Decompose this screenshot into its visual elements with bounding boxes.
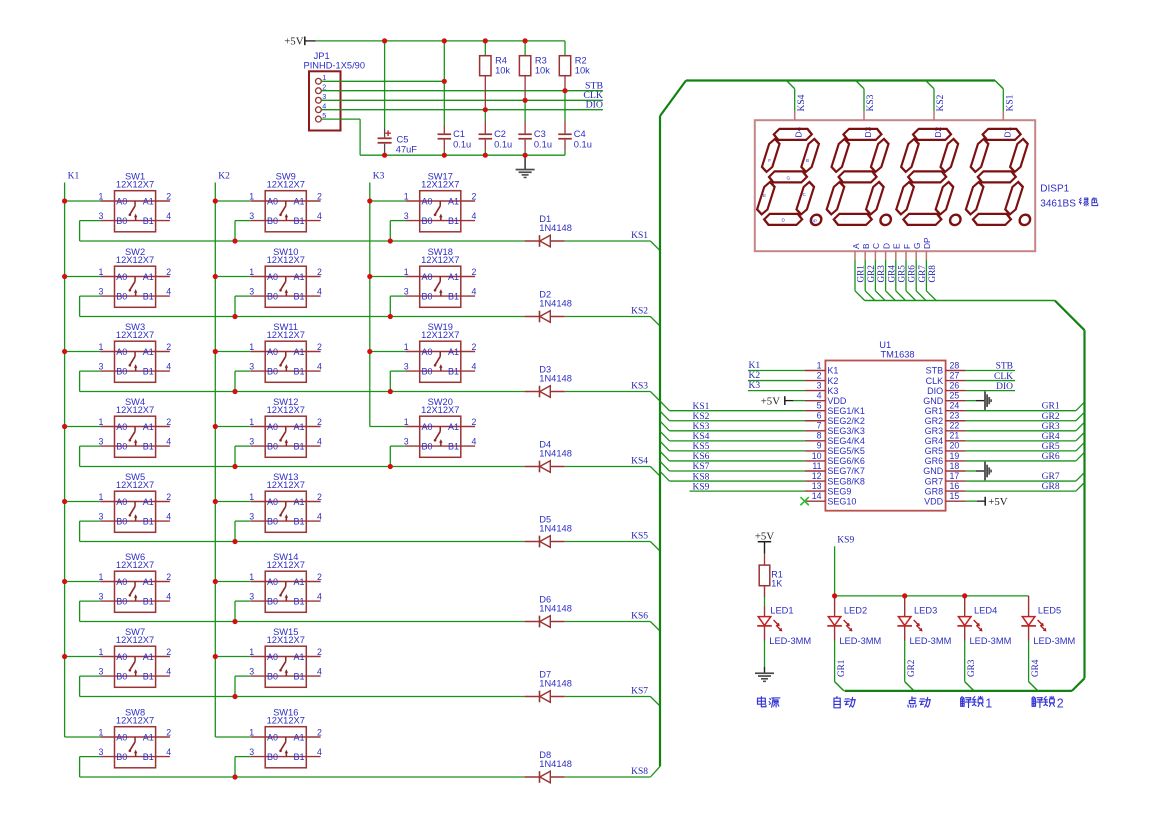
label unlock1 (Chinese) bbox=[960, 697, 971, 708]
wire SW3 pin3 to row line bbox=[80, 370, 101, 372]
switch SW9 12X12X7 bbox=[249, 172, 322, 232]
ground symbol at U1 pin 25 bbox=[966, 391, 992, 410]
svg-text:3: 3 bbox=[817, 380, 822, 390]
wire KS8 from bus to U1 pin12 bbox=[660, 471, 669, 481]
svg-text:1N4148: 1N4148 bbox=[539, 223, 572, 233]
svg-text:1N4148: 1N4148 bbox=[539, 759, 572, 769]
svg-text:3: 3 bbox=[98, 286, 103, 296]
svg-text:E: E bbox=[892, 243, 902, 249]
wire SW6 pin3 to row line bbox=[80, 600, 101, 602]
switch SW4 12X12X7 bbox=[98, 397, 171, 457]
wire net GR7 from U1 to right bus bbox=[966, 480, 1076, 482]
resistor R2 10k bbox=[559, 56, 590, 91]
svg-text:B0: B0 bbox=[116, 291, 127, 301]
svg-text:1N4148: 1N4148 bbox=[539, 373, 572, 383]
wire SW4 pin1 to column bbox=[65, 426, 101, 428]
svg-text:1N4148: 1N4148 bbox=[539, 603, 572, 613]
svg-text:A1: A1 bbox=[143, 577, 154, 587]
svg-text:A1: A1 bbox=[143, 732, 154, 742]
wire SW8 pin3 to row line bbox=[80, 756, 101, 758]
connector JP1 PINHD-1X5/90 bbox=[304, 51, 366, 131]
svg-text:12X12X7: 12X12X7 bbox=[421, 255, 459, 265]
wire JP1 pin1 to +5V net bbox=[321, 80, 444, 82]
svg-text:F: F bbox=[902, 244, 912, 249]
svg-text:CLK: CLK bbox=[926, 376, 944, 386]
svg-text:B0: B0 bbox=[267, 752, 278, 762]
wire SW7 pin1 to column bbox=[65, 656, 101, 658]
svg-text:LED4: LED4 bbox=[974, 606, 997, 616]
wire net CLK from JP1 pin3 bbox=[321, 99, 603, 101]
wire GR2 from LED3 to bottom bus bbox=[904, 641, 906, 682]
svg-text:KS4: KS4 bbox=[693, 432, 710, 442]
wire net K1 stub to U1 bbox=[748, 370, 805, 372]
junction dots K2 column bbox=[213, 198, 218, 659]
svg-text:3: 3 bbox=[249, 211, 254, 221]
wire C5 branch from rail bbox=[384, 41, 386, 129]
svg-text:A0: A0 bbox=[422, 422, 433, 432]
diode D3 1N4148 bbox=[525, 365, 572, 398]
wire LED1 cathode to ground bbox=[764, 641, 766, 667]
svg-text:2: 2 bbox=[317, 267, 322, 277]
svg-text:A1: A1 bbox=[293, 347, 304, 357]
pin lead digit D2 bbox=[933, 111, 935, 120]
capacitor C5 47uF bbox=[378, 129, 418, 156]
wire KS7 from diode to bus bbox=[565, 696, 651, 698]
svg-text:2: 2 bbox=[472, 192, 477, 202]
svg-text:A1: A1 bbox=[448, 272, 459, 282]
seven-segment digit D1 bbox=[964, 129, 1040, 225]
svg-text:4: 4 bbox=[317, 667, 322, 677]
svg-text:12X12X7: 12X12X7 bbox=[421, 180, 459, 190]
svg-text:+5V: +5V bbox=[988, 496, 1007, 508]
svg-text:2: 2 bbox=[166, 267, 171, 277]
svg-text:4: 4 bbox=[166, 287, 171, 297]
wire KS7 from bus to U1 pin11 bbox=[660, 461, 669, 471]
svg-text:GR8: GR8 bbox=[927, 265, 937, 283]
svg-text:B0: B0 bbox=[267, 441, 278, 451]
svg-text:B0: B0 bbox=[422, 366, 433, 376]
wire K1 column bbox=[64, 183, 66, 738]
pin 22 GR3 bbox=[925, 421, 966, 436]
svg-text:12: 12 bbox=[812, 471, 822, 481]
svg-text:2: 2 bbox=[166, 492, 171, 502]
svg-text:4: 4 bbox=[472, 362, 477, 372]
wire C3 pullup connection bbox=[524, 100, 526, 121]
junction dots row 2 bbox=[232, 314, 393, 319]
svg-text:GR3: GR3 bbox=[876, 265, 886, 283]
svg-text:U1: U1 bbox=[879, 340, 891, 350]
svg-text:4: 4 bbox=[472, 211, 477, 221]
label power (Chinese) bbox=[758, 697, 766, 707]
svg-text:B0: B0 bbox=[267, 596, 278, 606]
svg-text:3: 3 bbox=[249, 591, 254, 601]
svg-text:GR8: GR8 bbox=[925, 486, 944, 496]
svg-text:12X12X7: 12X12X7 bbox=[421, 405, 459, 415]
svg-text:3: 3 bbox=[249, 286, 254, 296]
svg-text:22: 22 bbox=[950, 421, 960, 431]
svg-text:15: 15 bbox=[950, 491, 960, 501]
pin 16 GR8 bbox=[925, 481, 966, 496]
wire net GR6 from U1 to right bus bbox=[966, 460, 1076, 462]
wire KS2 from diode to bus bbox=[565, 316, 651, 318]
switch SW11 12X12X7 bbox=[249, 322, 322, 382]
wire SW13 pin3 to row line bbox=[235, 520, 251, 522]
pin 28 STB bbox=[926, 360, 966, 375]
svg-text:12X12X7: 12X12X7 bbox=[116, 255, 154, 265]
svg-text:1: 1 bbox=[249, 417, 254, 427]
pin 20 GR5 bbox=[925, 441, 966, 456]
svg-text:4: 4 bbox=[317, 287, 322, 297]
svg-text:0.1u: 0.1u bbox=[534, 140, 552, 150]
wire KS4 from diode to bus bbox=[565, 466, 651, 468]
svg-text:12X12X7: 12X12X7 bbox=[421, 330, 459, 340]
svg-text:C1: C1 bbox=[453, 129, 465, 139]
svg-text:KS3: KS3 bbox=[866, 94, 876, 111]
svg-text:C5: C5 bbox=[397, 135, 409, 145]
wire SW18 pin3 to row line bbox=[390, 295, 405, 297]
svg-text:B1: B1 bbox=[143, 291, 154, 301]
pin lead segment D bbox=[885, 251, 887, 259]
pin 21 GR4 bbox=[925, 431, 966, 446]
svg-text:12X12X7: 12X12X7 bbox=[267, 480, 305, 490]
svg-text:LED-3MM: LED-3MM bbox=[839, 636, 881, 646]
junction dots row 7 bbox=[232, 694, 237, 699]
wire net GR5 from U1 to right bus bbox=[966, 450, 1076, 452]
wire SW16 pin1 to column bbox=[215, 736, 251, 738]
wire switch row 5 output line bbox=[80, 541, 525, 543]
svg-text:DIO: DIO bbox=[996, 382, 1013, 392]
wire net GR1 from U1 to right bus bbox=[966, 410, 1076, 412]
wire SW20 pin3 to row line bbox=[390, 445, 405, 447]
svg-text:B1: B1 bbox=[293, 366, 304, 376]
LED LED3 LED-3MM bbox=[897, 596, 951, 646]
svg-text:1: 1 bbox=[249, 342, 254, 352]
svg-text:B1: B1 bbox=[143, 216, 154, 226]
svg-text:1N4148: 1N4148 bbox=[539, 448, 572, 458]
svg-text:1: 1 bbox=[98, 572, 103, 582]
svg-text:A1: A1 bbox=[143, 272, 154, 282]
wire net CLK from U1 bbox=[966, 380, 1015, 382]
svg-text:GR4: GR4 bbox=[925, 436, 944, 446]
svg-text:2: 2 bbox=[472, 267, 477, 277]
svg-text:A1: A1 bbox=[293, 732, 304, 742]
svg-text:KS9: KS9 bbox=[693, 482, 710, 492]
wire bus to KS1 display lead bbox=[995, 81, 1003, 89]
pin 7 SEG3/K3 bbox=[805, 421, 865, 436]
wire GR5 from display bbox=[895, 260, 897, 291]
wire GR4 from display bbox=[885, 260, 887, 291]
svg-text:A1: A1 bbox=[143, 422, 154, 432]
wire KS collector bus vertical bbox=[659, 116, 661, 766]
wire GR staircase horizontal bbox=[865, 300, 1055, 302]
svg-text:+5V: +5V bbox=[761, 396, 780, 408]
svg-text:GR5: GR5 bbox=[1042, 442, 1060, 452]
power +5V at U1 pin15 VDD bbox=[966, 496, 1008, 508]
svg-text:A0: A0 bbox=[116, 577, 127, 587]
svg-text:A0: A0 bbox=[267, 497, 278, 507]
svg-text:GR1: GR1 bbox=[1042, 402, 1060, 412]
wire KS5 from bus to U1 pin9 bbox=[660, 441, 669, 451]
svg-text:B0: B0 bbox=[116, 216, 127, 226]
ground symbol below C3 bbox=[516, 155, 535, 178]
svg-text:SEG9: SEG9 bbox=[827, 486, 851, 496]
wire net K2 stub to U1 bbox=[748, 380, 805, 382]
svg-text:3: 3 bbox=[404, 361, 409, 371]
svg-text:27: 27 bbox=[950, 370, 960, 380]
junction dots LED anode rail bbox=[832, 593, 967, 598]
svg-text:B1: B1 bbox=[448, 366, 459, 376]
svg-text:3: 3 bbox=[98, 436, 103, 446]
resistor R1 1K bbox=[759, 554, 783, 589]
svg-text:B0: B0 bbox=[267, 216, 278, 226]
svg-text:A0: A0 bbox=[116, 272, 127, 282]
svg-text:GR6: GR6 bbox=[907, 265, 917, 283]
wire SW11 pin1 to column bbox=[215, 351, 251, 353]
svg-text:GR3: GR3 bbox=[925, 426, 944, 436]
svg-text:B1: B1 bbox=[293, 291, 304, 301]
svg-text:A1: A1 bbox=[293, 196, 304, 206]
svg-text:KS1: KS1 bbox=[1006, 94, 1016, 111]
svg-text:A0: A0 bbox=[267, 347, 278, 357]
wire bottom GR bus bbox=[845, 690, 1072, 692]
wire KS6 from diode to bus bbox=[565, 621, 651, 623]
svg-text:2: 2 bbox=[166, 342, 171, 352]
svg-text:2: 2 bbox=[317, 342, 322, 352]
svg-text:A0: A0 bbox=[116, 497, 127, 507]
svg-text:GR7: GR7 bbox=[1042, 472, 1060, 482]
svg-text:GR1: GR1 bbox=[925, 406, 944, 416]
ground symbol at U1 pin 18 bbox=[966, 462, 992, 481]
svg-text:K3: K3 bbox=[373, 172, 385, 182]
svg-text:SEG6/K6: SEG6/K6 bbox=[827, 456, 865, 466]
LED LED5 LED-3MM bbox=[1021, 596, 1075, 646]
svg-text:2: 2 bbox=[317, 492, 322, 502]
svg-text:13: 13 bbox=[812, 481, 822, 491]
svg-text:4: 4 bbox=[817, 390, 822, 400]
svg-text:SEG8/K8: SEG8/K8 bbox=[827, 476, 865, 486]
wire SW15 pin1 to column bbox=[215, 656, 251, 658]
svg-text:GR6: GR6 bbox=[925, 456, 944, 466]
svg-text:K2: K2 bbox=[827, 376, 838, 386]
svg-text:26: 26 bbox=[950, 380, 960, 390]
wire SW10 pin3 to row line bbox=[235, 295, 251, 297]
svg-text:GR2: GR2 bbox=[1042, 412, 1060, 422]
svg-text:2: 2 bbox=[166, 572, 171, 582]
svg-text:5: 5 bbox=[817, 401, 822, 411]
svg-text:A0: A0 bbox=[116, 652, 127, 662]
svg-text:12X12X7: 12X12X7 bbox=[116, 180, 154, 190]
svg-text:GR6: GR6 bbox=[1042, 452, 1060, 462]
wire GR4 from LED5 to bottom bus bbox=[1028, 641, 1030, 682]
wire bus top diagonal bbox=[660, 81, 686, 117]
svg-text:DIO: DIO bbox=[927, 386, 943, 396]
svg-text:A0: A0 bbox=[267, 732, 278, 742]
svg-text:3: 3 bbox=[249, 361, 254, 371]
svg-text:KS6: KS6 bbox=[631, 612, 648, 622]
capacitor C2 0.1u bbox=[479, 121, 513, 155]
svg-text:A0: A0 bbox=[267, 272, 278, 282]
svg-text:4: 4 bbox=[166, 747, 171, 757]
svg-text:8: 8 bbox=[817, 431, 822, 441]
svg-text:2: 2 bbox=[317, 647, 322, 657]
wire KS4 from bus to U1 pin8 bbox=[660, 431, 669, 441]
junction dots row 6 bbox=[232, 619, 237, 624]
svg-text:GR5: GR5 bbox=[897, 265, 907, 283]
wire SW19 pin1 to column bbox=[370, 351, 406, 353]
svg-text:1: 1 bbox=[249, 267, 254, 277]
seven-segment digit D3 bbox=[825, 129, 901, 225]
LED LED1 LED-3MM bbox=[757, 586, 811, 647]
wire SW10 pin1 to column bbox=[215, 276, 251, 278]
svg-text:1: 1 bbox=[249, 191, 254, 201]
svg-text:12X12X7: 12X12X7 bbox=[267, 635, 305, 645]
power +5V above R1 bbox=[755, 531, 774, 554]
wire SW18 pin1 to column bbox=[370, 276, 406, 278]
svg-text:A1: A1 bbox=[143, 347, 154, 357]
pin lead segment G bbox=[915, 251, 917, 259]
svg-text:10: 10 bbox=[812, 451, 822, 461]
svg-text:B0: B0 bbox=[116, 516, 127, 526]
svg-text:KS1: KS1 bbox=[631, 231, 648, 241]
svg-text:2: 2 bbox=[317, 192, 322, 202]
wire GR7 from display bbox=[915, 260, 917, 291]
pin 4 VDD bbox=[805, 390, 847, 405]
svg-text:R2: R2 bbox=[575, 56, 587, 66]
svg-text:1N4148: 1N4148 bbox=[539, 298, 572, 308]
wire net GR8 from U1 to right bus bbox=[966, 490, 1076, 492]
switch SW10 12X12X7 bbox=[249, 247, 322, 307]
svg-text:C3: C3 bbox=[534, 129, 546, 139]
svg-text:LED2: LED2 bbox=[844, 606, 867, 616]
diode D8 1N4148 bbox=[525, 750, 572, 783]
pin 6 SEG2/K2 bbox=[805, 411, 865, 426]
wire SW2 pin3 to row line bbox=[80, 295, 101, 297]
wire SW20 pin1 to column bbox=[370, 426, 406, 428]
svg-text:1: 1 bbox=[98, 267, 103, 277]
svg-text:3: 3 bbox=[404, 286, 409, 296]
wire net GR2 from U1 to right bus bbox=[966, 420, 1076, 422]
svg-text:B1: B1 bbox=[448, 441, 459, 451]
svg-text:A1: A1 bbox=[293, 422, 304, 432]
svg-text:+5V: +5V bbox=[284, 36, 303, 48]
svg-text:K3: K3 bbox=[749, 381, 761, 391]
svg-text:KS7: KS7 bbox=[693, 462, 710, 472]
wire SW16 pin3 to row line bbox=[235, 756, 251, 758]
svg-text:0.1u: 0.1u bbox=[494, 140, 512, 150]
wire switch row 4 output line bbox=[80, 466, 525, 468]
wire net GR3 from U1 to right bus bbox=[966, 430, 1076, 432]
svg-text:4: 4 bbox=[166, 592, 171, 602]
svg-text:KS5: KS5 bbox=[693, 442, 710, 452]
segment letter markers digit D4 bbox=[763, 158, 817, 224]
wire GR2 from display bbox=[864, 260, 866, 291]
wire LED anode rail bbox=[835, 595, 1029, 597]
svg-text:K1: K1 bbox=[749, 361, 761, 371]
svg-text:A1: A1 bbox=[143, 196, 154, 206]
pin lead digit D4 bbox=[794, 111, 796, 120]
svg-text:12X12X7: 12X12X7 bbox=[116, 560, 154, 570]
diode D6 1N4148 bbox=[525, 595, 572, 628]
svg-text:KS5: KS5 bbox=[631, 532, 648, 542]
diode D7 1N4148 bbox=[525, 670, 572, 703]
wire K3 column bbox=[369, 183, 371, 427]
svg-text:A0: A0 bbox=[422, 196, 433, 206]
svg-text:12X12X7: 12X12X7 bbox=[267, 405, 305, 415]
svg-text:B1: B1 bbox=[293, 441, 304, 451]
svg-text:D: D bbox=[881, 243, 891, 249]
svg-text:1: 1 bbox=[98, 342, 103, 352]
svg-text:GR4: GR4 bbox=[886, 265, 896, 283]
label jog (Chinese) bbox=[908, 697, 916, 707]
pin 1 K1 bbox=[805, 360, 839, 375]
pin lead segment DP bbox=[925, 251, 927, 259]
svg-text:B0: B0 bbox=[422, 441, 433, 451]
wire KS8 from diode to bus bbox=[565, 776, 651, 778]
wire SW15 pin3 to row line bbox=[235, 675, 251, 677]
svg-text:B0: B0 bbox=[267, 291, 278, 301]
svg-text:3: 3 bbox=[249, 511, 254, 521]
wire KS4 to display digit pin bbox=[786, 81, 794, 89]
power +5V at U1 pin4 VDD bbox=[761, 396, 805, 408]
svg-text:4: 4 bbox=[472, 287, 477, 297]
svg-text:B: B bbox=[806, 158, 809, 163]
svg-text:18: 18 bbox=[950, 461, 960, 471]
svg-text:B0: B0 bbox=[267, 366, 278, 376]
wire C2 pullup connection bbox=[484, 110, 486, 121]
label unlock2 (Chinese) bbox=[1032, 697, 1043, 708]
wire K2 column bbox=[214, 183, 216, 738]
svg-text:R3: R3 bbox=[535, 56, 547, 66]
svg-text:B1: B1 bbox=[448, 216, 459, 226]
svg-text:4: 4 bbox=[166, 362, 171, 372]
wire bottom bus diagonal to right bus bbox=[1072, 678, 1085, 691]
svg-text:4: 4 bbox=[166, 211, 171, 221]
svg-text:B1: B1 bbox=[143, 366, 154, 376]
svg-text:B1: B1 bbox=[448, 291, 459, 301]
svg-text:21: 21 bbox=[950, 431, 960, 441]
svg-text:A0: A0 bbox=[116, 196, 127, 206]
svg-text:2: 2 bbox=[317, 417, 322, 427]
wire GR bus diagonal to right bus bbox=[1055, 301, 1085, 331]
svg-text:16: 16 bbox=[950, 481, 960, 491]
wire net GR4 from U1 to right bus bbox=[966, 440, 1076, 442]
svg-text:GR5: GR5 bbox=[925, 446, 944, 456]
ground symbol below LED1 bbox=[755, 667, 774, 682]
svg-text:SEG1/K1: SEG1/K1 bbox=[827, 406, 865, 416]
svg-text:GR2: GR2 bbox=[866, 265, 876, 283]
switch SW5 12X12X7 bbox=[98, 472, 171, 532]
wire SW14 pin3 to row line bbox=[235, 600, 251, 602]
svg-text:KS4: KS4 bbox=[631, 457, 648, 467]
wire SW1 pin3 to row line bbox=[80, 220, 101, 222]
svg-text:A: A bbox=[851, 243, 861, 249]
svg-text:B1: B1 bbox=[143, 441, 154, 451]
svg-text:28: 28 bbox=[950, 360, 960, 370]
switch SW6 12X12X7 bbox=[98, 552, 171, 612]
svg-text:17: 17 bbox=[950, 471, 960, 481]
wire SW9 pin1 to column bbox=[215, 200, 251, 202]
no-connect mark U1 pin14 SEG10 bbox=[800, 497, 808, 505]
svg-text:1K: 1K bbox=[771, 579, 782, 589]
wire KS3 from bus to U1 pin7 bbox=[660, 421, 669, 431]
svg-text:1: 1 bbox=[404, 417, 409, 427]
svg-text:B1: B1 bbox=[143, 752, 154, 762]
wire KS1 from diode to bus bbox=[565, 240, 651, 242]
wire net KS9 stub to U1 pin13 bbox=[690, 490, 805, 492]
svg-text:B0: B0 bbox=[116, 596, 127, 606]
switch SW7 12X12X7 bbox=[98, 627, 171, 687]
seven-segment digit D2 bbox=[894, 129, 970, 225]
